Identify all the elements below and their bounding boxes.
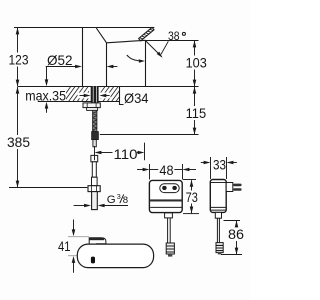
dimension 41: [73, 220, 75, 273]
svg-text:G: G: [107, 194, 116, 206]
node spout outlet band (38 deg face): [139, 27, 154, 41]
node faucet shank through deck (solid): [91, 86, 99, 103]
svg-text:115: 115: [186, 105, 207, 121]
svg-text:33: 33: [213, 156, 226, 172]
node socket hole right: [172, 186, 176, 190]
dimension 123: [17, 28, 19, 86]
svg-text:Ø34: Ø34: [124, 90, 149, 106]
node mounting nut: [83, 103, 100, 111]
wire faucet internal front edge: [106, 43, 108, 87]
dimension 385: [17, 87, 19, 187]
svg-text:385: 385: [7, 134, 30, 150]
node hose shaft: [92, 162, 96, 177]
svg-text:max.35: max.35: [25, 87, 66, 103]
svg-text:41: 41: [58, 238, 71, 254]
dimension diameter 52: [46, 66, 118, 68]
node power supply body (side): [210, 180, 226, 213]
svg-text:103: 103: [186, 54, 207, 70]
node socket hole left: [162, 186, 166, 190]
node hex nut G3/8: [88, 186, 100, 192]
node plug pin upper: [233, 184, 242, 187]
svg-text:Ø52: Ø52: [47, 52, 73, 68]
wire cable (front): [168, 218, 171, 243]
svg-text:86: 86: [228, 226, 244, 242]
wire top edge line of faucet with extension: [14, 27, 154, 29]
node socket recess: [160, 184, 179, 193]
dimension diameter 34: [80, 95, 110, 97]
wire 115 bottom extension line: [100, 134, 199, 136]
wire spout front edge: [145, 40, 147, 86]
node outlet tube G3/8: [92, 192, 98, 210]
svg-text:123: 123: [9, 52, 29, 68]
dimension 73: [183, 180, 199, 214]
node fitting block: [92, 132, 99, 140]
dimension 86: [221, 221, 242, 255]
svg-text:73: 73: [186, 189, 198, 205]
node sensor window tab: [89, 238, 106, 245]
node power supply body (front): [149, 180, 182, 212]
node body band lines: [150, 199, 182, 207]
node outlet slot: [91, 257, 95, 264]
node cable strain relief (front): [165, 213, 173, 218]
dimension 110: [95, 143, 145, 161]
wire 385 bottom extension line: [9, 187, 87, 189]
svg-text:48: 48: [159, 162, 173, 178]
svg-text:8: 8: [123, 195, 128, 206]
node sensor activation arrow (curved): [127, 55, 139, 61]
svg-text:3: 3: [117, 192, 121, 201]
svg-text:38: 38: [168, 29, 180, 43]
svg-text:110: 110: [114, 146, 138, 162]
wire faucet back edge: [82, 28, 84, 87]
node hose lower sleeve: [92, 177, 98, 186]
node plug pin lower: [233, 188, 242, 191]
node hose collar: [91, 155, 98, 161]
dimension 48: [137, 164, 196, 180]
node body top cap line: [211, 182, 227, 184]
wire faucet top-left diagonal: [96, 28, 106, 43]
dimension 115: [194, 87, 196, 134]
dimension max.35: [46, 67, 48, 113]
node stem below fitting: [93, 140, 96, 147]
dimension 103: [194, 41, 196, 86]
node body bottom band lines: [210, 207, 226, 210]
wire faucet near top edge: [107, 40, 146, 43]
wire cable (side): [217, 218, 219, 242]
node cable strain relief (side): [215, 212, 221, 218]
node cable connector (front): [166, 243, 174, 257]
wire gray extension lines for 41: [68, 237, 89, 256]
node faucet body capsule: [77, 244, 153, 268]
dimension 33: [201, 157, 237, 179]
node plug base: [226, 183, 233, 192]
dimension 38 degrees: [146, 41, 199, 57]
node deck (mounting surface): [18, 87, 199, 105]
label G 3/8 thread callout: [74, 205, 128, 207]
node cable connector (side): [216, 243, 223, 255]
node threaded rod: [93, 110, 97, 132]
